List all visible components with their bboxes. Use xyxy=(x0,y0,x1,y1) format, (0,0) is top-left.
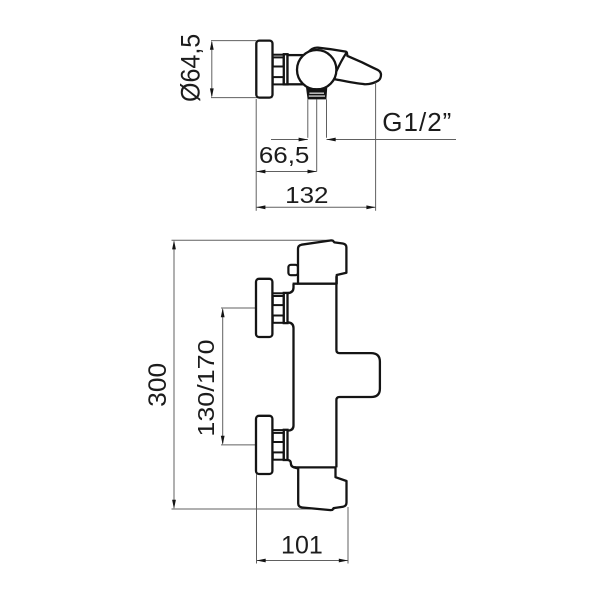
extension line bottom union (130/170) xyxy=(221,444,256,446)
svg-text:66,5: 66,5 xyxy=(259,144,310,169)
extension line bottom (300) xyxy=(172,508,336,510)
dimension line 132 xyxy=(256,206,375,208)
nut square upper xyxy=(273,57,284,66)
extension line left (wall face) xyxy=(255,99,257,211)
G1/2 leader line right xyxy=(327,139,457,141)
dimension line 66,5 xyxy=(256,171,317,173)
flange bar xyxy=(284,54,288,84)
bottom union nipple line xyxy=(272,429,284,431)
body left edge lower fillet to bottom knob xyxy=(288,460,297,468)
outlet thread slit 1 xyxy=(309,93,324,94)
knob bottom edge extension xyxy=(293,283,298,285)
valve body neck xyxy=(288,55,304,84)
body right edge with diverter bump xyxy=(336,276,380,467)
bottom union nut lower xyxy=(273,452,284,459)
wall plate (escutcheon, edge view) xyxy=(256,41,272,98)
extension line bottom (Ø64,5) xyxy=(211,97,273,99)
arrowhead down 300 xyxy=(172,500,176,509)
bottom union nut upper xyxy=(273,433,284,442)
arrowhead down 130/170 xyxy=(221,436,225,445)
body left edge upper fillet xyxy=(288,284,294,293)
arrowhead up Ø64,5 xyxy=(210,41,214,50)
extension line top union (130/170) xyxy=(221,307,256,309)
temperature knob (top) xyxy=(298,240,346,283)
arrowhead up 130/170 xyxy=(221,308,225,317)
body left edge between unions xyxy=(288,322,294,430)
bottom union wall plate xyxy=(256,416,272,474)
top union wall plate xyxy=(256,279,272,337)
lever handle xyxy=(308,48,381,85)
nipple top line xyxy=(273,54,285,56)
dimension line 300 xyxy=(173,242,175,508)
flow knob (bottom) xyxy=(294,467,347,510)
outlet thread slit 2 xyxy=(309,96,325,97)
temperature knob tab xyxy=(288,265,298,275)
arrowhead right 132 xyxy=(366,205,375,209)
arrowhead left 132 xyxy=(256,205,265,209)
top union flange xyxy=(284,293,288,323)
lever brim edge over ball xyxy=(336,53,346,72)
arrowhead down Ø64,5 xyxy=(210,88,214,97)
dimension line Ø64,5 xyxy=(211,42,213,96)
svg-text:G1/2”: G1/2” xyxy=(382,107,452,137)
svg-text:101: 101 xyxy=(281,532,323,560)
nut square lower xyxy=(273,77,284,84)
svg-text:130/170: 130/170 xyxy=(194,339,220,436)
outlet edge extension right xyxy=(326,99,328,137)
arrowhead right 101 xyxy=(339,559,348,563)
arrowhead up 300 xyxy=(172,240,176,249)
svg-text:300: 300 xyxy=(145,363,172,407)
top union nipple line xyxy=(272,292,284,294)
valve body ball xyxy=(297,50,336,89)
bottom union flange xyxy=(284,430,288,460)
dimension line 130/170 xyxy=(222,309,224,443)
top union nut upper xyxy=(273,296,284,305)
arrowhead left 66,5 xyxy=(256,170,265,174)
G1/2 arrow right-pointing xyxy=(299,138,308,142)
extension line top (Ø64,5) xyxy=(211,40,256,42)
dimension line 101 xyxy=(257,560,349,562)
outlet edge extension left xyxy=(307,99,309,137)
top union nut lower xyxy=(273,316,284,323)
svg-text:Ø64,5: Ø64,5 xyxy=(175,34,206,102)
svg-text:132: 132 xyxy=(285,183,328,208)
extension line right (101) xyxy=(347,507,349,564)
arrowhead right 66,5 xyxy=(308,170,317,174)
arrowhead left 101 xyxy=(257,559,266,563)
outlet thread block xyxy=(306,87,327,100)
G1/2 arrow left-pointing xyxy=(327,138,336,142)
outlet centerline extension xyxy=(316,99,318,171)
G1/2 leader line left xyxy=(271,139,308,141)
extension line left (101) xyxy=(256,474,258,564)
extension line top (300) xyxy=(172,239,332,241)
extension line right (lever tip) xyxy=(375,83,377,211)
